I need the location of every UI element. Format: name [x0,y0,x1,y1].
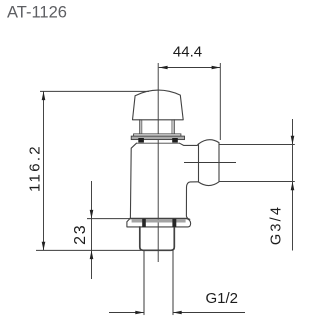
svg-text:AT-1126: AT-1126 [7,3,67,21]
svg-text:44.4: 44.4 [173,43,202,60]
svg-text:116.2: 116.2 [26,144,43,192]
svg-text:G1/2: G1/2 [206,290,239,307]
svg-text:23: 23 [72,223,89,244]
svg-text:G3/4: G3/4 [269,205,285,245]
